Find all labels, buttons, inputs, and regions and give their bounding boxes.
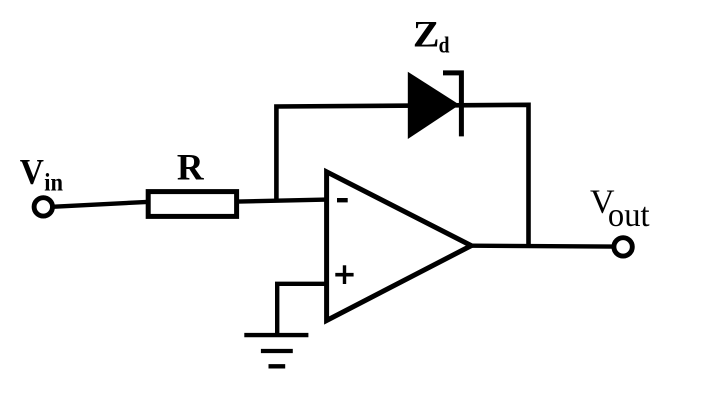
svg-text:Z: Z — [413, 15, 440, 55]
wire: feedback loop (left vertical, top horizontal, right vertical) — [276, 105, 528, 246]
wire: non-inverting input to ground drop — [277, 284, 327, 335]
resistor R — [148, 192, 236, 217]
op-amp non-inverting input plus sign — [335, 273, 353, 277]
diode Zd: cathode bar with top bend — [443, 73, 461, 136]
op-amp inverting input minus sign — [337, 198, 348, 202]
wire: op-amp output to terminal — [471, 243, 613, 248]
diode Zd: anode triangle — [408, 72, 460, 139]
wire: resistor to op-amp inverting input — [237, 200, 327, 202]
svg-text:V: V — [20, 151, 44, 191]
svg-text:in: in — [44, 169, 63, 196]
op-amp U1 triangle — [327, 172, 472, 321]
ground symbol — [244, 333, 308, 337]
output terminal circle Vout — [614, 238, 632, 256]
svg-text:d: d — [439, 32, 450, 58]
input terminal circle Vin — [34, 198, 52, 216]
wire: input terminal to resistor — [52, 202, 150, 207]
svg-text:R: R — [177, 147, 205, 188]
svg-text:out: out — [608, 196, 650, 234]
